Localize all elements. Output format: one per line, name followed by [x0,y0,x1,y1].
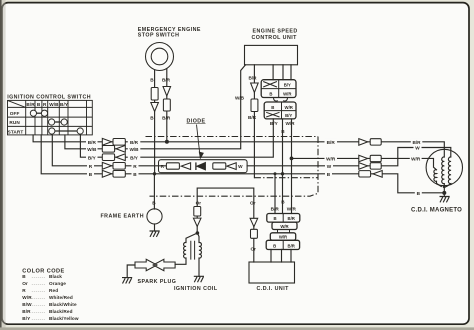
table corner diagonal [8,100,26,107]
control unit upper connector block [261,80,296,98]
B/R line connector female near magneto [370,139,381,145]
wire B/Y: switch column drop, row 3, up to control unit connector [80,119,273,157]
svg-text:.......: ....... [32,302,46,307]
svg-text:B: B [37,102,41,107]
emergency engine stop switch outer ring [146,43,174,71]
svg-text:C.D.I. MAGNETO: C.D.I. MAGNETO [411,207,462,213]
C.D.I. unit connector block C [270,233,295,241]
svg-text:W/R: W/R [285,105,294,110]
svg-text:Black/Red: Black/Red [49,309,73,314]
svg-text:Orange: Orange [49,281,66,286]
W line connector female near magneto [370,163,381,169]
scan bottom strip [0,327,474,330]
svg-text:B: B [152,201,156,206]
ignition coil primary winding [184,242,186,258]
junction: magneto B terminal [442,191,446,195]
junction: stop switch B joins row 5 [153,172,156,175]
OFF row contact circles [30,110,47,116]
wire: magneto coil bottoms junction [437,181,452,196]
junction: W/R branch point [290,157,294,161]
C.D.I. unit connector mating stubs [278,230,290,233]
wire B: frame earth lead [153,174,155,231]
diode assembly bullet male 1 [181,163,190,170]
emergency engine stop switch button [151,48,168,65]
C.D.I. unit connector block D [266,240,299,249]
svg-text:B/R: B/R [248,115,257,120]
wire W/R: branch to magneto small coil [292,158,437,169]
row 5 B bullet connector male [102,170,111,177]
junction: B vertical joins row 5 [281,172,284,175]
svg-text:B/R: B/R [412,140,421,145]
harness dash-dot vertical link [150,137,319,197]
ground at spark plug [122,278,132,284]
wire B/R: C.D.I. unit drop from B row [274,174,276,214]
wire: ignition coil primary to spark plug [175,258,186,264]
wire: spark plug to ground [127,265,135,278]
C.D.I. unit box [249,262,295,283]
scan left edge shadow [0,0,2,330]
row 3 B/Y connector female [102,154,114,161]
C.D.I. unit connector block B [272,222,297,229]
wire: control unit to upper connector block [273,65,291,80]
connector (female) on stop switch B/R lead [163,99,170,111]
svg-text:W/B: W/B [49,102,59,107]
wire W: diode box output to magneto right coil [247,148,451,166]
svg-text:CONTROL UNIT: CONTROL UNIT [252,35,298,41]
wire W/B: switch column drop, row 2, up to engine speed control unit [65,65,246,149]
DIODE label arrow [197,125,201,159]
svg-text:W/B: W/B [235,96,245,101]
svg-text:Or: Or [250,201,256,206]
row 1 B/R bullet connector male [102,138,111,145]
START row contact circles [49,128,84,134]
svg-text:R: R [43,102,47,107]
wire B/R: emergency stop switch right lead [166,69,168,142]
spark plug left electrode arm [135,259,157,270]
svg-text:DIODE: DIODE [187,118,206,124]
svg-text:R: R [22,288,26,293]
diode assembly connector female 1 [166,163,179,169]
connector (female) on stop switch B lead [151,88,158,101]
wire: C.D.I. connector block to C.D.I. unit box [271,250,291,263]
frame earth terminal circle [147,209,162,224]
wire B/R: control unit lead down [253,65,255,178]
svg-text:FRAME EARTH: FRAME EARTH [101,213,145,219]
svg-text:W/R: W/R [280,224,289,229]
svg-text:W/R: W/R [285,121,295,126]
svg-text:W/R: W/R [326,157,336,162]
svg-text:W: W [415,146,420,151]
W line connector male near magneto [359,163,368,170]
svg-text:B: B [271,105,274,110]
B line connector male near magneto [373,171,382,178]
svg-text:B/R: B/R [287,243,295,248]
wire Or: bridge to ignition coil and C.D.I. unit [197,188,254,262]
wire: ignition coil primary legs [186,233,199,243]
svg-text:START: START [8,130,24,135]
svg-text:B/Y: B/Y [88,155,97,160]
wire R: switch column drop, row 4, into diode box [52,135,166,166]
lower block crossed cell [266,112,279,117]
svg-text:RUN: RUN [9,120,20,125]
wire B: emergency stop switch left lead [154,69,156,174]
row 1 B/R connector female [113,139,125,146]
ground under magneto [440,197,450,203]
magneto lighting coil (right) [448,157,451,184]
junction: stop switch B/R joins row 1 [165,140,169,144]
wire B/R: switch column drop, row 1, to magneto middle coil [33,135,444,157]
connector (male) on control unit B/R lead [251,83,259,93]
svg-text:Black: Black [49,274,62,279]
row 2 W/B connector female [102,146,114,153]
svg-text:IGNITION CONTROL SWITCH: IGNITION CONTROL SWITCH [7,95,91,101]
svg-text:Red: Red [49,288,58,293]
svg-text:B/Y: B/Y [285,113,292,118]
row 2 W/B bullet connector male [116,145,125,152]
svg-text:W/R: W/R [287,207,297,212]
control unit lower connector block [264,102,296,119]
svg-text:B: B [273,243,276,248]
connector (male) on stop switch B/R lead [163,87,171,97]
svg-text:B/R: B/R [271,207,280,212]
svg-text:Or: Or [250,246,256,251]
upper block crossed cell [263,82,277,88]
magneto case circle [426,149,462,185]
svg-text:B/R: B/R [248,76,257,81]
svg-text:B/Y: B/Y [60,102,69,107]
svg-text:B/R: B/R [130,140,139,145]
svg-text:.......: ....... [32,316,46,321]
svg-text:.......: ....... [32,288,46,293]
connector (male) on Or lead to C.D.I. unit [250,218,258,226]
harness dash-dot bus upper [146,136,319,138]
svg-text:OFF: OFF [10,111,20,116]
row 4 R bullet connector male [102,162,111,169]
svg-text:STOP SWITCH: STOP SWITCH [138,32,180,38]
svg-text:Or: Or [196,200,202,205]
B/R line connector male near magneto [359,139,368,146]
W/R line connector male near magneto [359,155,368,162]
svg-text:W/B: W/B [129,147,139,152]
svg-text:W/R: W/R [279,235,288,240]
ignition coil core [191,241,195,260]
ground under ignition coil [194,276,204,282]
svg-text:B/Y: B/Y [270,121,279,126]
row 4 R connector female [113,163,125,170]
C.D.I. unit connector block A [267,214,300,223]
ignition coil secondary winding [199,242,201,258]
svg-text:B/Y: B/Y [284,83,291,88]
connector (female) on control unit B/R lead [251,99,258,112]
svg-text:B/R: B/R [88,140,97,145]
svg-text:Black/White: Black/White [49,302,77,307]
svg-text:B/Y: B/Y [130,155,139,160]
spark plug right electrode arm [153,259,175,270]
junction: magneto coil common [443,185,446,188]
W/R line connector female near magneto [370,155,381,161]
wire B: control unit connector down to C.D.I. unit connector [282,119,284,214]
row 3 B/Y bullet connector male [116,154,125,161]
svg-text:B/R: B/R [327,140,336,145]
svg-text:ENGINE SPEED: ENGINE SPEED [253,29,298,35]
magneto charge coil (middle) [442,157,445,184]
B line connector female near magneto [359,171,371,177]
svg-text:B/R: B/R [162,78,171,83]
svg-text:B: B [269,92,272,97]
svg-text:.......: ....... [32,309,46,314]
connector (male) on Or lead to ignition coil [193,218,201,226]
connector (female) on Or lead to ignition coil [194,207,201,217]
svg-text:B: B [22,274,26,279]
magneto pickup coil (small) [434,170,437,182]
svg-text:W: W [238,164,243,169]
wire: ignition coil secondary to ground [198,258,200,276]
diode assembly enclosure [159,160,248,173]
svg-text:Or: Or [22,281,28,286]
svg-text:White/Red: White/Red [49,295,73,300]
diode assembly connector female 2 [213,163,226,169]
junction: B/R C.D.I. drop joins row 5 [274,172,277,175]
connector mating hooks [274,98,288,101]
svg-text:.......: ....... [32,281,46,286]
row 5 B connector female [113,171,125,178]
connector (female) on Or lead to C.D.I. unit [251,229,258,238]
svg-text:SPARK PLUG: SPARK PLUG [138,279,177,285]
svg-text:W/R: W/R [283,92,292,97]
RUN row contact circles [49,119,68,125]
harness dash-dot B/R to magneto case [254,177,318,179]
svg-text:B/R: B/R [22,309,31,314]
svg-text:Black/Yellow: Black/Yellow [49,316,79,321]
svg-text:C.D.I. UNIT: C.D.I. UNIT [257,286,290,292]
wire W/R: control unit connector down to C.D.I. unit connector [291,119,293,214]
svg-text:B/R: B/R [162,115,171,120]
svg-text:B/R: B/R [287,216,295,221]
ground under frame earth [150,231,160,237]
svg-text:B/R: B/R [26,102,35,107]
diode assembly bullet male 2 [227,163,236,170]
svg-text:W/B: W/B [87,147,97,152]
svg-text:.......: ....... [32,274,46,279]
svg-text:IGNITION COIL: IGNITION COIL [174,286,218,292]
connector (male) on stop switch B lead [151,103,159,112]
svg-text:W: W [327,164,332,169]
wire B: switch column drop, row 5, to magneto bottom [41,135,444,193]
junction: Or split to ignition coil [196,231,200,235]
svg-text:W/R: W/R [411,157,421,162]
ignition control switch table grid [8,100,93,134]
svg-text:B/Y: B/Y [22,316,31,321]
svg-text:B: B [273,216,276,221]
diode D1 (to stop switch circuit) [197,163,206,170]
svg-text:.......: ....... [32,295,46,300]
engine speed control unit box [245,45,298,64]
